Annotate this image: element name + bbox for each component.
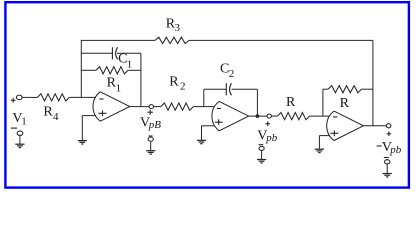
svg-text:2: 2 [180, 80, 186, 92]
node Vpb [267, 114, 271, 118]
label C2 [220, 61, 234, 80]
wire VpB terminal to ground [150, 141, 152, 150]
ground below -Vpb [383, 174, 392, 177]
wire U2 output [248, 115, 267, 117]
wire VpB to R2 [154, 106, 161, 108]
svg-text:2: 2 [229, 68, 235, 80]
label C1 [118, 52, 132, 71]
wire V1 negative terminal to ground [19, 135, 21, 144]
wire U2 non-inverting input [202, 125, 215, 127]
ground below Vpb [257, 160, 266, 163]
label V1 [12, 111, 26, 128]
resistor R2 [161, 103, 194, 110]
svg-text:4: 4 [53, 111, 59, 123]
svg-text:R: R [43, 105, 53, 120]
wire R feedback right [362, 88, 374, 90]
wire to R feedback [323, 88, 328, 90]
svg-text:pb: pb [265, 132, 278, 144]
Vpb plus sign [266, 122, 271, 126]
wire right vertical to U3 output [372, 40, 374, 125]
wire C2 left vertical [203, 89, 205, 106]
wire U3 non-inverting to ground [318, 136, 320, 149]
V1 negative terminal [17, 131, 23, 136]
node VpB [149, 105, 153, 109]
wire C2 right vertical [256, 89, 258, 116]
svg-text:1: 1 [127, 59, 133, 71]
VpB measure terminal [148, 137, 153, 141]
svg-text:R: R [286, 95, 296, 110]
op-amp U2 [212, 101, 249, 130]
capacitor C1 [112, 47, 117, 59]
resistor R1 [96, 67, 128, 74]
wire R2 to U2 inverting input [193, 106, 214, 108]
svg-text:pb: pb [389, 144, 402, 156]
label VpB [140, 115, 161, 131]
svg-text:pB: pB [148, 119, 162, 131]
-Vpb minus sign [384, 157, 389, 159]
wire R to U3 inverting input [310, 115, 330, 117]
label R3 [166, 17, 181, 35]
V1 plus sign [11, 98, 16, 103]
svg-text:1: 1 [116, 82, 122, 94]
-Vpb plus sign [387, 132, 391, 136]
wire to C2 [204, 88, 227, 90]
Vpb minus sign [259, 144, 264, 146]
node -Vpb [386, 124, 391, 128]
svg-text:1: 1 [21, 116, 27, 128]
wire -Vpb terminal to ground [386, 164, 388, 173]
svg-text:R: R [340, 96, 350, 111]
wire to R1 left [81, 69, 96, 71]
wire C1 right [117, 52, 141, 54]
wire U1 non-inverting to ground [81, 116, 83, 141]
wire V1 to R4 [22, 96, 37, 98]
label R2 [169, 74, 185, 92]
ground below V1 [15, 144, 24, 147]
resistor R3 [155, 37, 189, 43]
wire U1 output [130, 106, 149, 108]
resistor R feedback [328, 86, 362, 93]
VpB minus sign [149, 135, 153, 137]
label R4 [43, 105, 59, 123]
label R series [286, 95, 296, 110]
wire U3 non-inverting input [319, 135, 329, 137]
wire U1 non-inverting input [82, 115, 96, 117]
ground below U1 [78, 141, 87, 144]
wire R1 right [128, 69, 141, 71]
label R feedback [340, 96, 350, 111]
ground below U3 [315, 149, 324, 152]
V1 minus sign [11, 127, 17, 129]
wire top left to R3 [81, 39, 155, 41]
resistor R series [277, 113, 309, 120]
label R1 [107, 76, 122, 95]
wire to C1 left [81, 52, 113, 54]
capacitor C2 [226, 83, 231, 95]
V1 positive terminal [16, 95, 22, 100]
Vpb measure terminal [259, 146, 264, 150]
op-amp U3 [327, 111, 364, 140]
wire R3 to right vertical [189, 39, 373, 41]
ground below VpB [146, 151, 155, 154]
svg-text:R: R [169, 74, 179, 89]
op-amp U1 [93, 92, 130, 121]
wire U2 non-inverting to ground [201, 126, 203, 140]
wire Vpb to R [271, 115, 277, 117]
wire feedback left vertical [80, 40, 82, 97]
-Vpb measure terminal [385, 160, 390, 164]
label -Vpb [377, 140, 402, 156]
junction dot U2 output [256, 114, 260, 118]
wire R4 to U1 inverting input [69, 96, 96, 98]
svg-text:3: 3 [175, 22, 181, 34]
wire Vpb terminal to ground [261, 151, 263, 160]
wire U3 output [364, 125, 387, 127]
wire C2 right [232, 88, 258, 90]
wire feedback right vertical to U1 output [140, 53, 142, 106]
ground below U2 [197, 140, 206, 143]
label Vpb [257, 128, 277, 144]
resistor R4 [37, 94, 69, 101]
wire R feedback left vertical [322, 89, 324, 116]
VpB plus sign [148, 110, 154, 115]
